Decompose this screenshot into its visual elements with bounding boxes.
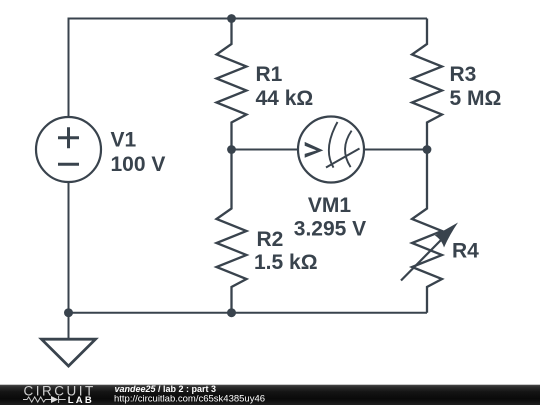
- label R3 5 MOhm: [450, 63, 502, 110]
- wire bottom rail: [69, 312, 428, 314]
- svg-text:http://circuitlab.com/c65sk438: http://circuitlab.com/c65sk4385uy46: [114, 393, 265, 404]
- node junction dot mid right: [423, 145, 432, 154]
- label R4: [452, 240, 479, 263]
- svg-text:R2: R2: [257, 228, 284, 251]
- voltage source V1: [36, 117, 101, 182]
- label R1 44 kOhm: [256, 63, 314, 110]
- wire left rail lower (V1 minus terminal to bottom node): [68, 182, 70, 313]
- footer bar: [0, 385, 540, 405]
- label VM1 3.295 V: [294, 194, 366, 241]
- label V1 100 V: [111, 129, 166, 177]
- wire middle right (voltmeter to right node): [364, 149, 427, 151]
- svg-text:V1: V1: [111, 129, 137, 152]
- R4 wiper arrow: [401, 223, 458, 281]
- svg-text:R1: R1: [256, 63, 283, 86]
- wire top rail: [69, 18, 428, 20]
- svg-text:R3: R3: [450, 63, 477, 86]
- svg-text:3.295 V: 3.295 V: [294, 218, 366, 241]
- svg-text:5 MΩ: 5 MΩ: [450, 87, 502, 110]
- resistor R2: [217, 150, 247, 313]
- resistor R1: [217, 19, 247, 150]
- svg-text:R4: R4: [452, 240, 479, 263]
- node junction dot bottom left: [64, 308, 73, 317]
- svg-text:100 V: 100 V: [111, 153, 166, 176]
- footer logo resistor-diode squiggle: [23, 396, 66, 403]
- svg-text:1.5 kΩ: 1.5 kΩ: [254, 251, 318, 274]
- node junction dot bottom mid: [227, 308, 236, 317]
- node junction dot mid left: [227, 145, 236, 154]
- wire middle left (node to voltmeter): [232, 149, 299, 151]
- svg-text:44 kΩ: 44 kΩ: [256, 87, 314, 110]
- resistor R3: [412, 19, 442, 150]
- footer logo diode triangle: [51, 396, 58, 403]
- svg-text:VM1: VM1: [308, 194, 352, 217]
- ground: [42, 313, 96, 366]
- voltmeter VM1: [298, 117, 364, 183]
- svg-text:LAB: LAB: [68, 395, 94, 405]
- resistor R4 variable: [412, 150, 442, 313]
- wire left rail upper (top corner to V1 plus terminal): [68, 18, 70, 118]
- label R2 1.5 kOhm: [254, 228, 318, 274]
- node junction dot top mid: [227, 14, 236, 23]
